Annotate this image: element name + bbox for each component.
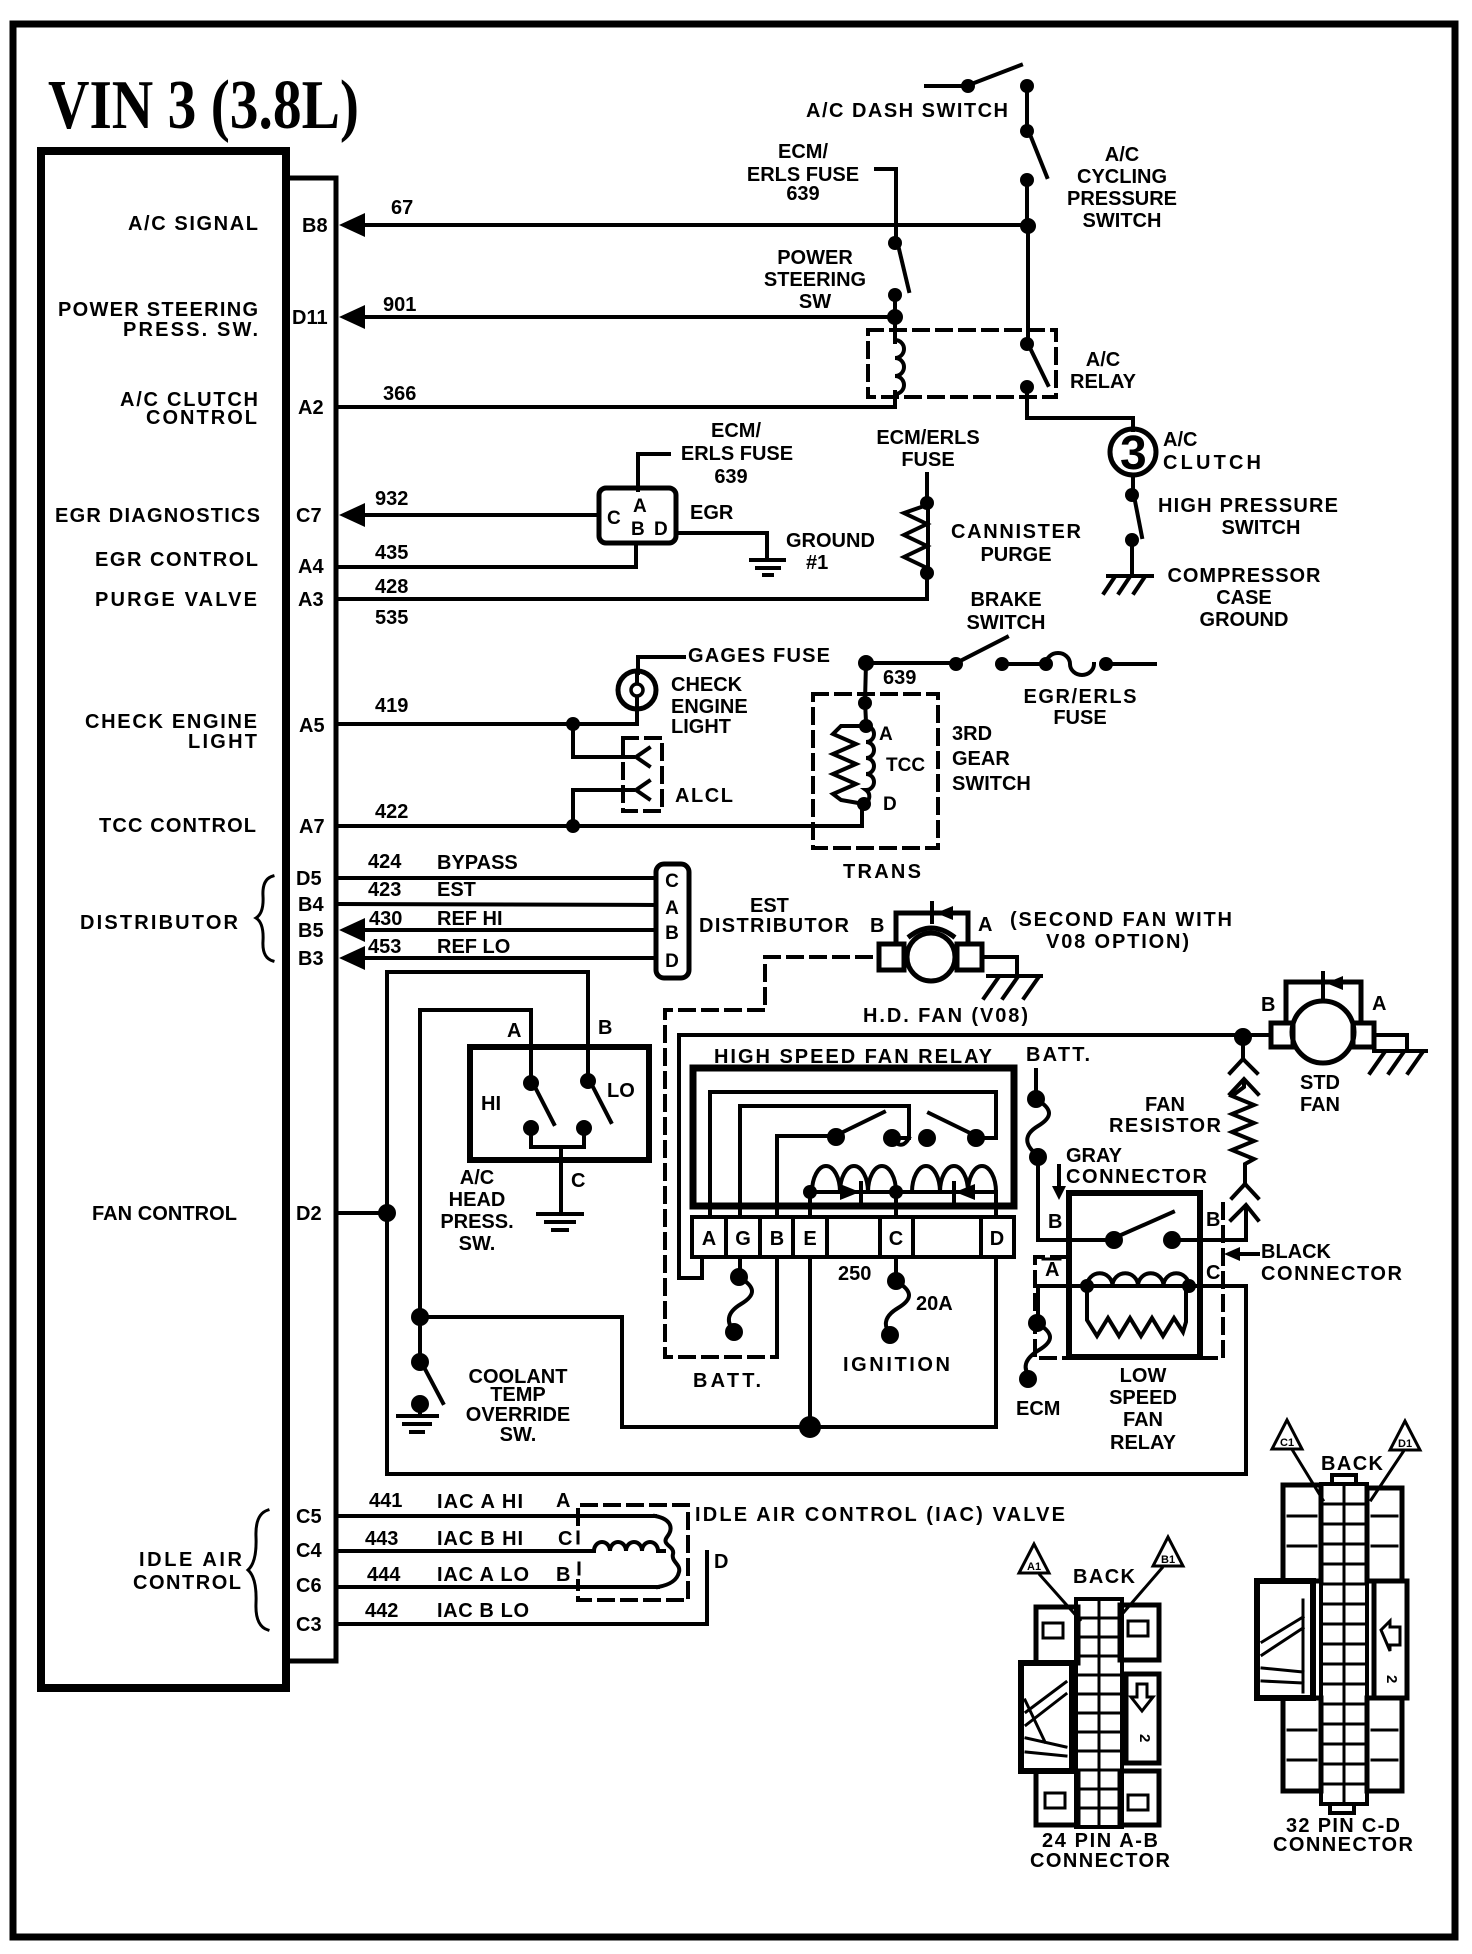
svg-text:IAC A HI: IAC A HI (437, 1491, 523, 1513)
wire 423 EST labels (368, 879, 476, 901)
svg-text:24 PIN A-B: 24 PIN A-B (1042, 1830, 1158, 1852)
svg-text:POWER STEERING: POWER STEERING (58, 299, 258, 321)
svg-text:639: 639 (883, 667, 916, 689)
24 pin bottom-left latch (1036, 1771, 1078, 1825)
black connector dashed box (1035, 1200, 1223, 1358)
svg-text:A: A (507, 1020, 521, 1042)
node 639 junction (858, 655, 874, 671)
HI switch (523, 1075, 554, 1136)
relay wire pin G to contact (740, 1106, 909, 1215)
relay wire pin B to pivot (777, 1136, 830, 1215)
svg-text:435: 435 (375, 542, 408, 564)
24 pin left shell (1021, 1663, 1072, 1771)
wire 423 (338, 904, 656, 905)
svg-text:C: C (607, 508, 621, 529)
label GROUND #1 (786, 530, 875, 574)
wire bulb to gages fuse (638, 657, 684, 673)
svg-text:A1: A1 (1027, 1561, 1041, 1573)
svg-text:IAC B LO: IAC B LO (437, 1600, 529, 1622)
svg-text:HI: HI (481, 1093, 501, 1115)
svg-text:CONNECTOR: CONNECTOR (1030, 1850, 1171, 1872)
svg-text:C3: C3 (296, 1614, 322, 1636)
TCC solenoid D terminal (857, 797, 871, 811)
svg-text:C: C (889, 1228, 903, 1250)
compressor case ground (1104, 576, 1152, 593)
svg-text:C5: C5 (296, 1506, 322, 1528)
TCC solenoid coil (864, 726, 874, 804)
svg-text:B5: B5 (298, 920, 324, 942)
svg-text:COMPRESSOR: COMPRESSOR (1168, 565, 1322, 587)
svg-text:B: B (1048, 1211, 1062, 1233)
svg-text:441: 441 (369, 1490, 402, 1512)
wire 453 (365, 956, 656, 960)
svg-text:B: B (598, 1017, 612, 1039)
label POWER STEERING PRESS. SW. (58, 299, 258, 341)
pin letters A G B E C D (702, 1228, 1004, 1250)
svg-text:443: 443 (365, 1528, 398, 1550)
svg-text:442: 442 (365, 1600, 398, 1622)
label GRAY CONNECTOR (1066, 1145, 1208, 1188)
svg-text:430: 430 (369, 908, 402, 930)
ignition fuse 250 20A (881, 1257, 909, 1344)
svg-text:PRESS.: PRESS. (440, 1211, 513, 1233)
24 pin center grid (1076, 1599, 1122, 1827)
svg-text:453: 453 (368, 936, 401, 958)
wire coil to ECM fuse (1038, 1286, 1087, 1318)
svg-text:EST: EST (750, 895, 789, 917)
svg-text:B3: B3 (298, 948, 324, 970)
svg-text:STD: STD (1300, 1072, 1340, 1094)
fan resistor (1232, 1081, 1254, 1184)
wire coolant junction to ignition bus (420, 1317, 996, 1427)
svg-text:2: 2 (1136, 1734, 1153, 1742)
relay switch 2 (918, 1113, 985, 1147)
svg-text:ENGINE: ENGINE (671, 696, 748, 718)
node trans A feed (858, 696, 872, 710)
label ECM/ERLS FUSE 639 (EGR) (681, 420, 793, 488)
fan resistor connector break top (1230, 1037, 1258, 1094)
wire ECM/ERLS fuse to power steering switch (876, 169, 896, 241)
svg-text:D: D (883, 794, 897, 815)
gray connector B labels (1048, 1209, 1220, 1233)
wire 443 with IAC coil (338, 1542, 664, 1551)
svg-text:A/C SIGNAL: A/C SIGNAL (128, 213, 258, 235)
wire relay coil to 366 (893, 392, 897, 407)
wire 430 (365, 928, 656, 932)
svg-text:B: B (556, 1564, 570, 1586)
relay wire pin A to contact (710, 1092, 996, 1215)
wire relay to A/C clutch (1027, 387, 1133, 430)
wire 424 (338, 876, 656, 880)
H.D. fan ground (982, 957, 1041, 998)
A/C dash switch (926, 65, 1034, 93)
svg-text:ERLS FUSE: ERLS FUSE (681, 443, 793, 465)
label HIGH PRESSURE SWITCH (1158, 495, 1338, 539)
svg-text:DISTRIBUTOR: DISTRIBUTOR (80, 912, 239, 934)
label STD FAN (1300, 1072, 1340, 1116)
node coolant junction (411, 1308, 429, 1326)
distributor brace (256, 876, 273, 961)
svg-text:RESISTOR: RESISTOR (1109, 1115, 1222, 1137)
svg-text:SW.: SW. (459, 1233, 496, 1255)
svg-text:419: 419 (375, 695, 408, 717)
high pressure switch (1125, 475, 1142, 575)
black connector arrow (1224, 1247, 1258, 1261)
svg-text:A/C DASH SWITCH: A/C DASH SWITCH (806, 100, 1008, 122)
STD fan ground (1370, 1035, 1426, 1073)
svg-text:67: 67 (391, 197, 413, 219)
wire EGR to ground #1 (676, 533, 767, 558)
svg-text:422: 422 (375, 801, 408, 823)
svg-text:IAC A LO: IAC A LO (437, 1564, 529, 1586)
svg-text:PRESSURE: PRESSURE (1067, 188, 1177, 210)
svg-text:A: A (1045, 1259, 1059, 1281)
svg-text:BATT.: BATT. (693, 1370, 761, 1392)
label A/C CLUTCH (1163, 429, 1261, 474)
relay coil drops (810, 1192, 996, 1215)
svg-text:CYCLING: CYCLING (1077, 166, 1167, 188)
head press ground (538, 1214, 582, 1230)
svg-text:TRANS: TRANS (843, 861, 921, 883)
TCC terminal labels (879, 724, 925, 815)
IAC pin tick B (578, 1563, 581, 1574)
label ECM/ERLS FUSE 639 (top) (747, 141, 859, 205)
svg-text:444: 444 (367, 1564, 401, 1586)
arrowhead B3 (339, 946, 365, 970)
32 pin center grid (1321, 1475, 1367, 1813)
svg-text:FAN: FAN (1123, 1409, 1163, 1431)
wire relay pin B riser (775, 1259, 779, 1357)
gray connector box (1069, 1193, 1200, 1357)
svg-text:LIGHT: LIGHT (671, 716, 731, 738)
svg-text:SPEED: SPEED (1109, 1387, 1177, 1409)
24 pin right shell with arrow (1126, 1674, 1159, 1763)
svg-text:TCC: TCC (886, 755, 925, 776)
3rd gear switch dashed box (813, 694, 938, 848)
node ignition bus junction (799, 1416, 821, 1438)
svg-text:BLACK: BLACK (1261, 1241, 1332, 1263)
label A/C HEAD PRESS. SW. (440, 1167, 513, 1255)
svg-text:GROUND: GROUND (1200, 609, 1289, 631)
svg-text:EGR: EGR (690, 502, 734, 524)
svg-text:D: D (990, 1228, 1004, 1250)
relay pin strip (692, 1217, 1014, 1257)
wire 419 (338, 709, 637, 724)
wire 441 (338, 1514, 655, 1518)
wire switch commons to C (531, 1128, 584, 1212)
svg-text:B: B (1261, 994, 1275, 1016)
svg-text:SWITCH: SWITCH (952, 773, 1031, 795)
IAC armature curve (655, 1516, 679, 1587)
svg-text:B4: B4 (298, 894, 324, 916)
svg-text:BATT.: BATT. (1026, 1044, 1090, 1066)
svg-text:C7: C7 (296, 505, 322, 527)
svg-text:C6: C6 (296, 1575, 322, 1597)
32 pin bottom-right latch (1367, 1698, 1402, 1791)
gray connector arrow (1052, 1166, 1066, 1200)
svg-text:TCC CONTROL: TCC CONTROL (99, 815, 256, 837)
ALCL lower pin (636, 781, 649, 799)
svg-text:A/C: A/C (1163, 429, 1197, 451)
wire 428 (338, 575, 927, 599)
wire 424 BYPASS labels (368, 851, 518, 874)
svg-text:G: G (735, 1228, 751, 1250)
wire 444 label row (367, 1564, 570, 1586)
svg-text:EGR/ERLS: EGR/ERLS (1024, 686, 1137, 708)
svg-text:250: 250 (838, 1263, 871, 1285)
24 pin bottom-right latch (1120, 1771, 1159, 1825)
svg-text:B1: B1 (1161, 1554, 1175, 1566)
svg-text:B: B (631, 519, 645, 540)
head press terminal labels (507, 1017, 612, 1042)
24 pin top-right latch (1120, 1605, 1159, 1660)
wire coil to bottom bus (1189, 1284, 1246, 1288)
svg-text:REF LO: REF LO (437, 936, 510, 958)
node D2 junction (378, 1204, 396, 1222)
label BRAKE SWITCH (967, 589, 1046, 634)
svg-text:IDLE AIR: IDLE AIR (139, 1549, 243, 1571)
svg-text:CONTROL: CONTROL (146, 407, 257, 429)
ground #1 symbol (751, 560, 784, 575)
svg-text:GEAR: GEAR (952, 748, 1010, 770)
relay coil 2 (896, 1166, 996, 1201)
wire relay feed riser (679, 1035, 702, 1278)
wire 422 (338, 804, 862, 826)
svg-text:B: B (870, 915, 884, 937)
arrowhead B8 (339, 213, 365, 237)
wire 435 (338, 545, 636, 567)
wire junction to relay coil (893, 317, 897, 342)
svg-text:EGR CONTROL: EGR CONTROL (95, 549, 258, 571)
svg-text:CASE: CASE (1216, 587, 1272, 609)
svg-text:A/C: A/C (1086, 349, 1120, 371)
dashed V08 wire fan B to relay pin B (665, 957, 871, 1357)
wire 444 (338, 1585, 658, 1589)
coolant switch ground (398, 1416, 437, 1432)
A/C clutch (1110, 427, 1156, 480)
svg-text:FAN: FAN (1300, 1094, 1340, 1116)
ECM box (41, 151, 286, 1688)
label CHECK ENGINE LIGHT (85, 711, 257, 753)
coolant temp override switch (411, 1353, 443, 1414)
wire 639 junction into trans box (865, 663, 866, 722)
svg-text:SW: SW (799, 291, 831, 313)
label CHECK ENGINE LIGHT (671, 674, 748, 738)
svg-text:GRAY: GRAY (1066, 1145, 1123, 1167)
svg-text:A5: A5 (299, 715, 325, 737)
svg-text:A4: A4 (298, 556, 324, 578)
svg-text:SWITCH: SWITCH (1083, 210, 1162, 232)
TCC solenoid A terminal (859, 719, 873, 733)
wire 442 label row (365, 1600, 529, 1622)
label A/C CYCLING PRESSURE SWITCH (1067, 144, 1177, 232)
svg-text:CHECK: CHECK (671, 674, 743, 696)
marker C1 (1272, 1420, 1323, 1500)
wire A7 to ALCL (573, 790, 633, 826)
svg-text:CANNISTER: CANNISTER (951, 521, 1082, 543)
svg-text:SWITCH: SWITCH (967, 612, 1046, 634)
svg-text:H.D. FAN (V08): H.D. FAN (V08) (863, 1005, 1028, 1027)
svg-text:PURGE VALVE: PURGE VALVE (95, 589, 257, 611)
wire pin E down (808, 1257, 812, 1427)
label 32 PIN C-D CONNECTOR (1273, 1815, 1414, 1856)
wire 67 (365, 223, 1028, 227)
wire 901 (365, 315, 895, 319)
svg-text:B: B (1206, 1209, 1220, 1231)
24 pin A-B connector drawing (1019, 1537, 1183, 1872)
check engine light bulb (618, 671, 656, 722)
wire junction to A/C relay contacts (1026, 226, 1030, 340)
label CANNISTER PURGE (951, 521, 1082, 566)
marker A1 (1019, 1544, 1080, 1620)
cannister purge winding (904, 496, 934, 580)
svg-text:366: 366 (383, 383, 416, 405)
label COMPRESSOR CASE GROUND (1168, 565, 1322, 631)
svg-text:EST: EST (437, 879, 476, 901)
brake switch (949, 637, 1009, 671)
TCC solenoid resistor (833, 726, 866, 804)
svg-text:423: 423 (368, 879, 401, 901)
label ECM/ERLS FUSE (cannister) (876, 427, 979, 471)
A/C relay coil (895, 340, 904, 394)
svg-text:ALCL: ALCL (675, 785, 733, 807)
svg-text:PRESS. SW.: PRESS. SW. (123, 319, 258, 341)
label COOLANT TEMP OVERRIDE SW. (466, 1366, 570, 1446)
idle air brace (248, 1510, 268, 1630)
svg-text:901: 901 (383, 294, 416, 316)
relay switch link (892, 1138, 909, 1145)
wire 442 (338, 1552, 707, 1624)
low speed relay switch (1069, 1212, 1246, 1249)
svg-text:B8: B8 (302, 215, 328, 237)
svg-text:932: 932 (375, 488, 408, 510)
svg-text:FUSE: FUSE (1053, 707, 1106, 729)
svg-text:428: 428 (375, 576, 408, 598)
label IDLE AIR CONTROL (133, 1549, 243, 1594)
svg-text:D: D (654, 519, 668, 540)
svg-text:ECM/ERLS: ECM/ERLS (876, 427, 979, 449)
fan resistor connector break bottom (1231, 1184, 1258, 1240)
svg-text:D5: D5 (296, 868, 322, 890)
svg-text:2: 2 (1383, 1675, 1400, 1683)
svg-text:DISTRIBUTOR: DISTRIBUTOR (699, 915, 850, 937)
svg-text:B: B (770, 1228, 784, 1250)
label 24 PIN A-B CONNECTOR (1030, 1830, 1171, 1872)
svg-text:C1: C1 (1280, 1437, 1294, 1449)
H.D. fan motor (879, 903, 982, 981)
label POWER STEERING SW (764, 247, 866, 313)
EGR connector C A B D (599, 488, 676, 543)
wire 443 label row (365, 1528, 572, 1550)
A/C relay switch (1020, 337, 1048, 394)
svg-text:D: D (665, 951, 679, 972)
label A/C RELAY (1070, 349, 1137, 393)
STD fan terminal labels (1261, 993, 1386, 1016)
svg-text:A/C: A/C (460, 1167, 494, 1189)
batt fuse to gray connector (1027, 1070, 1069, 1240)
svg-text:A: A (556, 1490, 570, 1512)
svg-text:BACK: BACK (1321, 1453, 1384, 1475)
marker D1 (1371, 1421, 1420, 1500)
svg-text:FAN: FAN (1145, 1094, 1185, 1116)
svg-text:GROUND: GROUND (786, 530, 875, 552)
node 901/steering junction (887, 309, 903, 325)
svg-text:C4: C4 (296, 1540, 322, 1562)
svg-text:PURGE: PURGE (980, 544, 1051, 566)
svg-text:HEAD: HEAD (449, 1189, 506, 1211)
wire brake switch to fuse (1002, 662, 1042, 666)
ALCL upper pin (636, 748, 649, 766)
label 3RD GEAR SWITCH (952, 723, 1031, 795)
A/C cycling pressure switch (1020, 124, 1047, 187)
svg-text:A/C: A/C (1105, 144, 1139, 166)
24 pin top-left latch (1036, 1607, 1078, 1663)
relay coil 1 (803, 1166, 903, 1201)
32 pin bottom-left latch (1283, 1698, 1321, 1791)
32 pin top-left latch (1283, 1485, 1321, 1581)
wire fuse label to cannister purge (925, 474, 929, 501)
low speed relay coil (1080, 1273, 1196, 1293)
svg-text:FAN CONTROL: FAN CONTROL (92, 1203, 237, 1225)
ALCL dashed box (623, 738, 662, 811)
svg-text:A: A (633, 496, 647, 517)
svg-text:BRAKE: BRAKE (970, 589, 1041, 611)
svg-text:TEMP: TEMP (490, 1384, 546, 1406)
svg-text:STEERING: STEERING (764, 269, 866, 291)
node 67/cycling junction (1020, 218, 1036, 234)
svg-text:LO: LO (607, 1080, 635, 1102)
svg-text:POWER: POWER (777, 247, 853, 269)
svg-text:B: B (665, 923, 679, 944)
svg-text:CONTROL: CONTROL (133, 1572, 241, 1594)
svg-text:RELAY: RELAY (1070, 371, 1137, 393)
svg-text:CONNECTOR: CONNECTOR (1066, 1166, 1208, 1188)
svg-text:CHECK ENGINE: CHECK ENGINE (85, 711, 257, 733)
svg-text:FUSE: FUSE (901, 449, 954, 471)
wire 453 REF LO labels (368, 936, 510, 958)
IAC valve dashed box (578, 1505, 688, 1600)
A/C head pressure switch box (470, 1047, 649, 1160)
wire to brake switch (866, 661, 950, 665)
EST connector C A B D (656, 864, 689, 978)
svg-text:LIGHT: LIGHT (188, 731, 257, 753)
svg-text:BYPASS: BYPASS (437, 852, 518, 874)
marker B1 (1124, 1537, 1183, 1612)
batt fuse below pin G (725, 1257, 752, 1341)
arrowhead B5 (339, 918, 365, 942)
svg-text:ECM/: ECM/ (778, 141, 828, 163)
svg-text:REF HI: REF HI (437, 908, 503, 930)
wire D2 to fan circuit (338, 1211, 387, 1215)
label SECOND FAN WITH V08 OPTION (1010, 909, 1232, 953)
svg-text:D1: D1 (1398, 1438, 1412, 1450)
node STD fan junction (1234, 1028, 1252, 1046)
label EST DISTRIBUTOR (699, 895, 850, 937)
A/C relay dashed box (868, 330, 1056, 397)
svg-text:424: 424 (368, 851, 402, 873)
svg-text:639: 639 (714, 466, 747, 488)
wire head press A loop (420, 1010, 531, 1360)
32 pin top-right latch (1367, 1488, 1402, 1581)
svg-text:HIGH PRESSURE: HIGH PRESSURE (1158, 495, 1338, 517)
wire cycling switch down (1025, 180, 1029, 226)
svg-text:#1: #1 (806, 552, 828, 574)
LO switch (576, 1073, 611, 1136)
svg-text:CONNECTOR: CONNECTOR (1261, 1263, 1403, 1285)
svg-text:535: 535 (375, 607, 408, 629)
fan circuit bottom bus (387, 1286, 1246, 1474)
svg-text:LOW: LOW (1120, 1365, 1167, 1387)
